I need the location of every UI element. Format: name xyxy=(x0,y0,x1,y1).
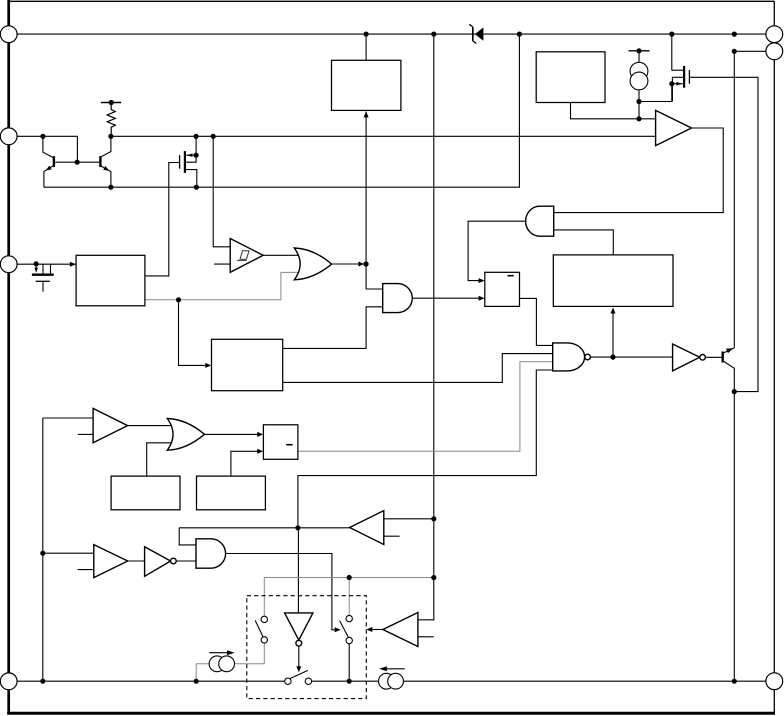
wire NAND U14 output to inverter U15 xyxy=(590,356,672,358)
wire latch U10 output to NAND U14 input1 xyxy=(520,298,553,345)
wire comparator U21 input2 stub xyxy=(78,569,94,571)
block U5 (left, CT block) xyxy=(76,255,145,305)
wire node A horizontal to buffer U24 xyxy=(179,527,349,529)
arrow into latch U19 input1 xyxy=(257,432,263,437)
pin terminal P2 left xyxy=(0,128,17,145)
wire VCC top rail xyxy=(17,33,766,35)
wire pin IN to current mirror xyxy=(17,136,77,162)
wire box U5 feedback branch to box U13 xyxy=(179,300,210,366)
wire OR U17 output to latch U19 xyxy=(205,433,262,435)
node ground at Q3 leg xyxy=(732,679,737,684)
transistor Q1 (PNP left) xyxy=(43,136,54,187)
wire schmitt U6 input2 stub xyxy=(214,263,230,265)
wire box U8 output down to U2 xyxy=(571,103,656,119)
wire comparator U12 output arrow lead xyxy=(370,629,383,631)
wire vertical from top rail to rail Y187 xyxy=(44,34,520,187)
transistor M2 (MOSFET top-right, gate right) xyxy=(672,66,689,102)
block U2 (top middle) xyxy=(332,60,401,110)
and-gate U11 xyxy=(383,284,413,313)
wire schmitt U6 output to OR U7 input1 xyxy=(263,254,301,256)
node switch control at S3 xyxy=(347,575,352,580)
wire comparator U21 input1 xyxy=(43,552,94,554)
node A xyxy=(295,525,300,530)
wire comparator U21 output to inverter U22 xyxy=(128,560,145,562)
node top rail at long vertical xyxy=(431,31,436,36)
border frame right xyxy=(773,1,775,713)
wire comparator U16 output to OR U17 xyxy=(128,425,176,427)
arrow into block U13 xyxy=(205,363,211,368)
switch S3 (right, in dashed box) xyxy=(340,615,353,643)
border frame bottom (thick) xyxy=(7,712,775,715)
node I1 to comparator U3 xyxy=(636,116,641,121)
pin terminal P6 right VCC2 xyxy=(766,43,783,60)
border frame top xyxy=(8,0,774,2)
node buffer U24 input tap xyxy=(431,516,436,521)
wire node OR out up to block U2 bottom xyxy=(365,112,367,265)
wire box U13 bottom output to NAND U14 input2 xyxy=(283,354,553,383)
wire AND U4 input2 to big box U9 top xyxy=(554,230,614,255)
node I1 bottom xyxy=(636,99,641,104)
wire comparator U3 output to AND U4 xyxy=(554,128,724,213)
node Q1 emitter xyxy=(40,134,45,139)
wire buffer U24 input2 stub xyxy=(384,535,400,537)
wire AND U4 output to latch U10 xyxy=(468,221,526,280)
node NAND U14 output xyxy=(610,355,615,360)
node OR U7 output junction xyxy=(364,261,369,266)
current source I2 (bottom left) xyxy=(209,650,235,671)
node rail187 at M1 source xyxy=(194,185,199,190)
node top rail at Q3 vertical xyxy=(732,31,737,36)
wire comparator U16 input1 riser xyxy=(43,417,93,419)
wire pin CT to box U5 xyxy=(17,263,76,265)
wire ground rail GND xyxy=(17,680,766,682)
inverter U22 xyxy=(145,547,171,577)
arrow switch S2 control (down, from inverter U25) xyxy=(296,666,301,672)
wire inverter U15 output to Q3 base xyxy=(705,356,721,358)
node box U5 feedback branch xyxy=(176,297,181,302)
pin terminal P5 top-right xyxy=(766,26,783,43)
schmitt buffer U6 xyxy=(230,239,263,273)
node ground at S3 xyxy=(347,679,352,684)
wire current source I2 left lead to ground (gray) xyxy=(196,664,209,681)
op-amp U16 (comparator lower-left) xyxy=(93,408,128,442)
wire box U13 top output to AND U11 input2 xyxy=(283,307,383,349)
wire inverter U25 riser from node A xyxy=(297,528,299,613)
node Q3 emitter xyxy=(732,389,737,394)
wire inverter U25 output lead xyxy=(298,646,300,668)
node rail187 at Q2 collector xyxy=(108,185,113,190)
arrow into latch U19 input2 xyxy=(257,449,263,454)
resistor R1 supply bar xyxy=(101,102,121,104)
transistor M1 (MOSFET, gate left) xyxy=(180,136,197,187)
op-amp U12 (bottom, left-pointing) xyxy=(383,613,418,647)
wire base line Q1 Q2 xyxy=(55,161,99,163)
pin terminal P3 left CT xyxy=(0,256,17,273)
switch S1 (left, in dashed box) xyxy=(255,616,267,643)
arrow switch S3 control (right) xyxy=(335,627,341,632)
diode D1 (zener on top rail) xyxy=(469,24,483,43)
latch U10 xyxy=(485,272,520,306)
node schmitt riser xyxy=(211,134,216,139)
nand U14 bubble xyxy=(585,354,591,360)
inverter U15 bubble xyxy=(700,355,706,361)
node I1 supply bar xyxy=(636,48,641,53)
block U9 (big box) xyxy=(553,255,673,307)
wire comparator U12 input2 stub xyxy=(418,636,434,638)
wire comparator U16 input2 stub xyxy=(78,433,93,435)
arrow up into block U2 bottom xyxy=(364,111,369,117)
or-gate U17 xyxy=(167,419,204,451)
wire current source I2 to switch S1 bottom (gray) xyxy=(235,643,265,664)
wire box U20 top to latch U19 input2 xyxy=(231,451,262,476)
border frame left (thick) xyxy=(7,0,10,714)
buffer U24 (left-pointing) xyxy=(350,511,384,545)
wire AND U23 output to switch S2 control xyxy=(226,554,337,630)
current source I1 (top right) xyxy=(629,51,650,119)
arrow into latch U10 input2 xyxy=(479,296,485,301)
block U20 xyxy=(197,476,266,510)
node switch control end xyxy=(431,575,436,580)
wire node R1 bottom rail xyxy=(111,135,656,137)
block U18 xyxy=(111,476,180,510)
node VCC2 wire xyxy=(732,49,737,54)
wire latch U19 output to NAND U14 input3 (gray) xyxy=(298,362,553,452)
wire riser to schmitt U6 input xyxy=(213,136,230,247)
node comp U21 input tap xyxy=(40,551,45,556)
wire NAND U14 input4 from node A xyxy=(298,370,553,528)
arrow comparator U12 output (left) xyxy=(366,627,372,632)
node CT capacitor tap xyxy=(34,261,39,266)
wire vertical top rail to M2 drain xyxy=(672,34,683,70)
wire top rail to box U2 xyxy=(365,34,367,60)
wire node OR out down to AND U11 input1 xyxy=(366,264,383,289)
node ground at left riser xyxy=(40,679,45,684)
wire switch S1 top riser (gray) xyxy=(263,578,265,617)
wire inverter U22 output to AND U23 xyxy=(176,560,196,562)
wire left riser net comp inputs xyxy=(42,418,44,681)
node Q2 emitter / R1 xyxy=(108,134,113,139)
block U13 xyxy=(212,339,283,390)
arrow into block U5 xyxy=(70,262,76,267)
inverter U25 bubble xyxy=(296,640,302,646)
inverter U25 (pointing down) xyxy=(285,613,313,640)
or-gate U7 xyxy=(294,248,331,280)
wire box U5 feedback to OR U7 input2 (gray) xyxy=(145,272,301,299)
wire M1 gate to box U5 xyxy=(145,163,179,276)
arrow into latch U10 input1 xyxy=(479,278,485,283)
capacitor C1 (MOS cap at CT pin) xyxy=(32,264,54,292)
wire long vertical net from top rail to comparator U12 xyxy=(418,34,434,620)
wire switch control net Y577 (gray) xyxy=(264,577,434,579)
block U8 (top right) xyxy=(536,52,605,103)
op-amp U21 xyxy=(94,545,128,578)
transistor Q2 (PNP right, diode-connected) xyxy=(100,136,111,187)
node top rail at M2 xyxy=(669,31,674,36)
inverter U15 xyxy=(673,344,700,371)
wire Q3 emitter node down to ground rail xyxy=(733,392,735,682)
node R1 supply bar xyxy=(109,100,114,105)
wire buffer U24 input1 to vertical net xyxy=(384,518,434,520)
wire switch S3 top riser (gray) xyxy=(348,578,350,616)
op-amp U3 (top-right comparator) xyxy=(656,110,692,145)
switch S2 (middle, in ground rail) xyxy=(285,670,312,684)
node M1 body lead xyxy=(194,153,199,158)
arrow OR U7 output into node xyxy=(358,262,364,267)
current source I3 (bottom right, in ground rail) xyxy=(379,666,405,689)
latch U10 minus mark xyxy=(508,275,514,277)
node M2 body lead xyxy=(669,81,674,86)
wire pin VCC2 to Q3 collector xyxy=(734,51,766,348)
arrow up into big box U9 bottom xyxy=(611,308,616,314)
pin terminal P4 bottom-left GND xyxy=(0,673,17,690)
latch U19 minus mark xyxy=(286,444,292,446)
nand-gate U14 xyxy=(553,343,585,371)
and-gate U23 xyxy=(196,539,226,568)
wire OR U7 output to AND U11 riser xyxy=(332,263,363,265)
inverter U22 bubble xyxy=(171,558,177,564)
pin terminal P1 top-left xyxy=(0,26,17,43)
node ground at I2 xyxy=(194,679,199,684)
latch U19 xyxy=(263,425,298,460)
wire AND U11 output to latch U10 input2 xyxy=(412,297,483,299)
schmitt U6 hysteresis glyph xyxy=(237,251,249,261)
wire node A down to AND U23 input1 xyxy=(179,528,196,545)
wire M2 gate down to Q3 emitter node xyxy=(690,77,758,391)
node M1 riser xyxy=(194,134,199,139)
transistor Q3 (NPN right) xyxy=(723,348,735,392)
wire current source I1 node to M2 xyxy=(639,84,672,102)
dashed box (switch block) xyxy=(247,596,366,699)
wire NAND out up to big box U9 bottom xyxy=(612,310,614,358)
pin terminal P7 bottom-right xyxy=(766,673,783,690)
node top rail at U2 riser xyxy=(364,31,369,36)
node base line junction xyxy=(75,160,80,165)
resistor R1 xyxy=(107,103,115,137)
wire box U18 top to OR U17 input2 xyxy=(147,443,172,476)
wire switch S3 bottom to ground rail xyxy=(348,644,350,682)
and-gate U4 (left-facing) xyxy=(526,206,554,236)
node top rail at x519 xyxy=(517,31,522,36)
